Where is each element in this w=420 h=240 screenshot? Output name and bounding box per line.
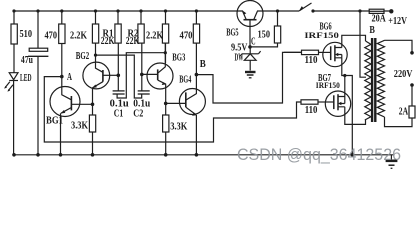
- transformer secondary winding: [377, 40, 384, 117]
- svg-text:C: C: [251, 36, 256, 47]
- resistor 2.2K right: [162, 11, 168, 63]
- svg-text:B: B: [369, 25, 375, 36]
- node B: [195, 73, 199, 77]
- svg-text:BG4: BG4: [179, 75, 191, 86]
- svg-text:3.3K: 3.3K: [170, 122, 187, 133]
- junction dots BG1 base wire: [91, 103, 95, 107]
- resistor 110 upper: [284, 50, 331, 54]
- wire node A to BG7 gate net: left, down, across, up: [44, 77, 301, 142]
- svg-text:B: B: [200, 59, 206, 70]
- wire secondary top to output terminal: [385, 40, 413, 52]
- resistor R2 22K: [138, 11, 144, 91]
- svg-text:BG1: BG1: [46, 116, 63, 127]
- svg-text:220V: 220V: [394, 69, 413, 80]
- resistor 110 lower: [301, 100, 334, 104]
- wire top rail right section: [313, 10, 390, 12]
- resistor 150: [274, 11, 280, 43]
- svg-text:110: 110: [305, 55, 318, 66]
- mosfet BG6 IRF150: [323, 35, 366, 155]
- svg-text:510: 510: [20, 29, 33, 40]
- junction dots bottom rail: [12, 153, 198, 157]
- svg-text:CSDN @qq_36412526: CSDN @qq_36412526: [237, 145, 401, 164]
- fuse 2A: [385, 85, 416, 127]
- fuse 20A: [369, 9, 384, 13]
- svg-text:LED: LED: [20, 73, 32, 84]
- resistor 470 left: [59, 11, 65, 77]
- capacitor C2: [96, 55, 150, 98]
- svg-text:470: 470: [45, 31, 58, 42]
- resistor 510: [11, 11, 17, 73]
- node dots on top rail: [12, 9, 361, 12]
- transistor BG1: [50, 77, 93, 155]
- ground below zener: [245, 72, 256, 78]
- svg-text:+12V: +12V: [388, 16, 407, 27]
- capacitor 47u: [28, 11, 48, 155]
- resistor 3.3K left: [89, 115, 95, 155]
- bottom ground rail: [14, 154, 394, 156]
- resistor 2.2K left: [92, 11, 98, 43]
- svg-text:2.2K: 2.2K: [70, 31, 87, 42]
- wire node B to BG6 gate net: [197, 52, 302, 103]
- svg-text:A: A: [67, 72, 73, 83]
- resistor 470 right: [193, 11, 199, 75]
- svg-text:3.3K: 3.3K: [71, 121, 88, 132]
- svg-text:C2: C2: [133, 109, 143, 120]
- mosfet BG7 IRF150: [325, 76, 365, 125]
- svg-text:47u: 47u: [21, 55, 33, 66]
- junction dot BG3 emitter node: [164, 102, 168, 106]
- junction dot sources: [343, 74, 354, 157]
- capacitor C1: [113, 53, 166, 98]
- node A: [60, 75, 64, 79]
- zener diode DW: [240, 45, 260, 70]
- transformer core: [371, 38, 377, 122]
- svg-text:2A: 2A: [399, 107, 409, 118]
- svg-text:IRF150: IRF150: [316, 80, 340, 90]
- wire top rail left section: [14, 10, 299, 12]
- svg-text:2.2K: 2.2K: [146, 31, 163, 42]
- terminal 220V bottom: [410, 83, 414, 87]
- LED: [4, 73, 18, 155]
- svg-text:20A: 20A: [372, 14, 387, 25]
- transistor BG3: [142, 43, 173, 115]
- terminal 220V top: [410, 51, 414, 55]
- transistor BG5: [237, 1, 263, 47]
- svg-text:DW: DW: [235, 53, 244, 64]
- wire center tap feed: [360, 11, 366, 77]
- svg-text:110: 110: [305, 105, 318, 116]
- svg-text:BG3: BG3: [172, 52, 185, 63]
- svg-text:22K: 22K: [101, 36, 115, 47]
- switch: [299, 3, 312, 11]
- transistor BG2: [83, 43, 118, 115]
- wire zener top to 150 bottom: [250, 43, 278, 47]
- transistor BG4: [166, 75, 206, 155]
- svg-text:IRF150: IRF150: [304, 30, 339, 40]
- ground symbol right end: [386, 155, 398, 169]
- svg-text:BG2: BG2: [76, 51, 89, 62]
- svg-text:C1: C1: [114, 109, 123, 120]
- resistor R1 22K: [115, 11, 121, 91]
- svg-text:470: 470: [180, 31, 193, 42]
- resistor 3.3K right: [163, 115, 169, 155]
- svg-text:BG5: BG5: [226, 28, 238, 39]
- svg-text:150: 150: [258, 29, 271, 40]
- terminal +12V: [389, 9, 393, 13]
- junction dots multivibrator: [94, 51, 167, 77]
- svg-text:22K: 22K: [126, 36, 140, 47]
- transformer primary winding: [365, 41, 371, 120]
